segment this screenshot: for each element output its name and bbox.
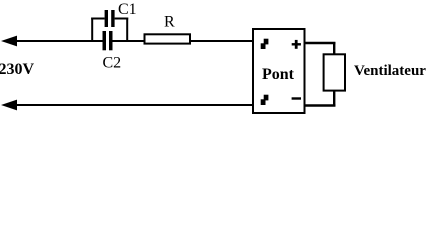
wire bridge plus to fan (top right) [305, 42, 336, 55]
wire C2 to resistor [113, 40, 146, 42]
capacitor C2 [103, 31, 122, 72]
svg-text:Ventilateur: Ventilateur [354, 63, 426, 79]
wire bottom rail [12, 104, 253, 106]
minus terminal label [292, 97, 301, 99]
wire branch up-left of C1 [91, 18, 104, 43]
wire top rail arrow (left) [1, 36, 17, 47]
resistor R [145, 14, 191, 44]
wire top rail segment to C2 [12, 40, 103, 42]
capacitor C1 [105, 1, 137, 27]
diode D2 (lower glyph in bridge) [261, 95, 269, 105]
wire fan to bridge minus (bottom right) [305, 91, 336, 107]
svg-text:C1: C1 [118, 1, 137, 18]
wire bottom rail arrow (left) [1, 100, 17, 111]
diode D1 (upper glyph in bridge) [261, 39, 269, 49]
wire branch down-right of C1 [115, 18, 129, 43]
svg-text:230V: 230V [0, 61, 35, 78]
svg-text:C2: C2 [103, 55, 122, 72]
fan M1 Ventilateur [324, 54, 427, 90]
wire resistor to bridge [190, 40, 253, 42]
svg-text:R: R [164, 14, 175, 31]
bridge rectifier U1 Pont [253, 29, 305, 113]
plus terminal label [292, 40, 301, 49]
svg-text:Pont: Pont [262, 66, 295, 83]
